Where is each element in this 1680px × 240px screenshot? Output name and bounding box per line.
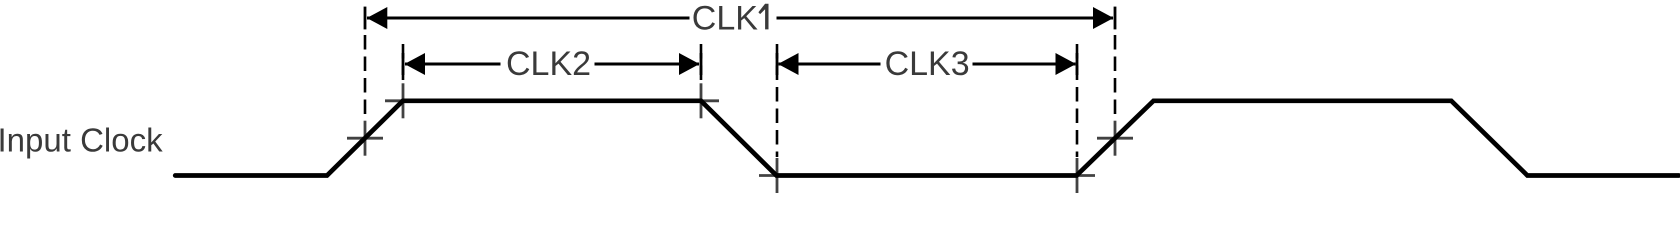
- node CLK3-right dashed extension line: [1076, 44, 1079, 157]
- svg-text:Input Clock: Input Clock: [0, 121, 163, 158]
- node CLK1-right extension tick: [1114, 7, 1117, 30]
- node CLK2-left dashed extension line: [402, 44, 405, 83]
- node CLK3-left extension tick: [776, 53, 779, 75]
- node CLK1-right dashed extension line: [1114, 35, 1117, 120]
- dimension CLK3 arrow line: [778, 47, 1076, 79]
- node cross at fall1 bottom: [759, 158, 795, 193]
- node CLK1-left extension tick: [364, 7, 367, 30]
- svg-text:CLK: CLK: [692, 0, 758, 37]
- svg-text:CLK2: CLK2: [506, 45, 591, 83]
- node CLK3-right extension tick: [1076, 53, 1079, 75]
- node cross at rise2 mid: [1097, 121, 1133, 156]
- node cross at rise1 mid: [347, 121, 383, 156]
- node cross at rise1 top: [385, 83, 421, 118]
- node CLK2-right extension tick: [700, 53, 703, 75]
- wire clock waveform: [175, 101, 1679, 176]
- node cross at fall1 top: [683, 83, 719, 118]
- svg-text:CLK3: CLK3: [885, 45, 970, 83]
- node cross at rise2 bottom: [1059, 158, 1095, 193]
- node CLK1-left dashed extension line: [364, 35, 367, 120]
- node CLK2-right dashed extension line: [700, 44, 703, 83]
- node CLK2-left extension tick: [402, 53, 405, 75]
- dimension CLK2 arrow line: [405, 47, 700, 79]
- node CLK3-left dashed extension line: [776, 44, 779, 157]
- dimension CLK1 arrow line: [367, 1, 1114, 32]
- label CLK1 digit 1: [758, 4, 768, 30]
